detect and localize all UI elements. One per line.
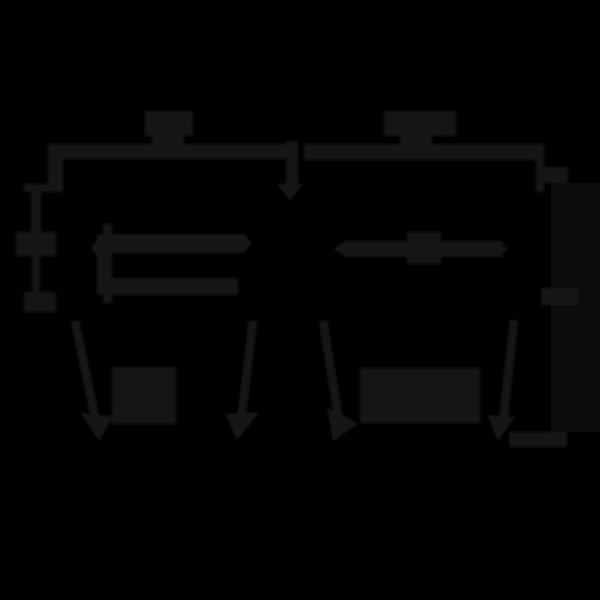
wire right drop bbox=[536, 160, 544, 192]
resistor R1 label bbox=[145, 111, 193, 146]
current arrow I1 right tip bbox=[244, 234, 252, 253]
Q1 right lead bbox=[232, 321, 253, 432]
dimension arrow shaft bbox=[344, 241, 503, 257]
wire lower band bbox=[112, 278, 238, 295]
node tick left bbox=[103, 224, 112, 234]
current arrow I1 left column bbox=[97, 234, 112, 295]
capacitor C1 lead top bbox=[31, 192, 41, 232]
current arrow I1 head bbox=[90, 232, 104, 264]
dimension arrow right tip bbox=[496, 241, 509, 257]
wire left step bbox=[24, 184, 53, 192]
capacitor C1 lead bottom bbox=[32, 256, 40, 292]
transistor Q2 label bbox=[360, 368, 480, 423]
bottom bar bbox=[509, 432, 567, 447]
node arrow down at center junction bbox=[277, 141, 303, 201]
capacitor C1 plates bbox=[16, 232, 56, 256]
component U1 body bbox=[551, 183, 600, 432]
resistor R2 label bbox=[384, 111, 456, 145]
Q1 left lead bbox=[75, 321, 106, 433]
Q2 right lead bbox=[494, 320, 514, 432]
wire top-left segment bbox=[48, 144, 287, 159]
node tick left lower bbox=[103, 295, 112, 303]
Q2 left lead bbox=[323, 321, 350, 434]
component U1 left edge bbox=[551, 183, 561, 432]
current arrow I1 shaft bbox=[112, 234, 244, 253]
dimension arrow left tip bbox=[333, 241, 346, 257]
ground bbox=[24, 292, 56, 312]
wire left drop bbox=[48, 144, 63, 192]
transistor Q1 label bbox=[112, 367, 176, 424]
dimension label bbox=[407, 232, 441, 264]
wire top-right segment bbox=[304, 144, 544, 160]
wire right step bbox=[544, 167, 568, 183]
terminal bump bbox=[541, 288, 578, 305]
